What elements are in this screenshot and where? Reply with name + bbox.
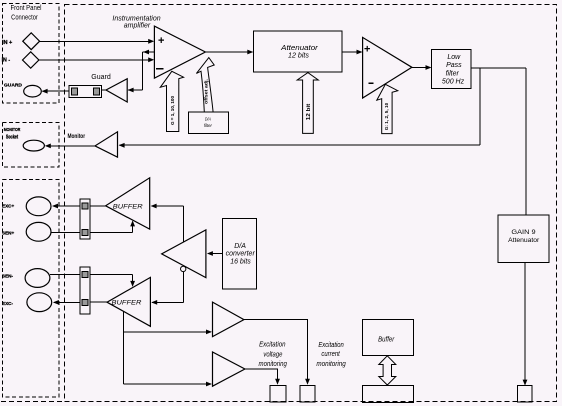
wire attenuator to U2 — [342, 51, 361, 53]
buffer B1 triangle — [106, 178, 150, 229]
svg-text:BUFFER: BUFFER — [113, 204, 143, 211]
wire tap to current monitor amp — [123, 383, 211, 385]
svg-text:Socket: Socket — [6, 134, 18, 140]
wire guard box to GUARD ellipse — [43, 90, 69, 92]
connector ellipse SEN- — [25, 269, 50, 288]
excitation connector dashed box — [3, 180, 60, 398]
wire sense feedback buffer2 — [90, 274, 133, 276]
wire central vertical lower — [183, 272, 185, 303]
bus pad box — [363, 386, 414, 403]
buffer B2 triangle — [107, 277, 150, 326]
wire SEN+ to block — [51, 231, 80, 233]
svg-text:offset adj.: offset adj. — [204, 79, 209, 104]
wire IN- to amplifier — [39, 59, 151, 61]
gain select block arrow into U1 — [160, 71, 183, 131]
svg-text:12 bit: 12 bit — [306, 103, 312, 120]
wire monitor amp A output — [244, 320, 308, 384]
wire low pass output — [472, 67, 526, 69]
svg-text:converter: converter — [226, 250, 256, 257]
wire into buffer B2 — [152, 301, 184, 303]
D/A filter box — [189, 112, 229, 133]
svg-text:Excitation: Excitation — [259, 342, 285, 349]
wire gain 9 output down — [524, 263, 526, 385]
feedthrough block lower — [80, 267, 90, 314]
svg-text:SEN+: SEN+ — [2, 230, 14, 235]
svg-text:Instrumentation: Instrumentation — [112, 15, 160, 22]
svg-text:IN +: IN + — [2, 40, 12, 46]
12 bit block arrow into attenuator — [297, 73, 318, 134]
wire guard buffer output — [102, 89, 106, 91]
wire down to gain attenuator — [525, 68, 527, 215]
svg-text:Front Panel: Front Panel — [11, 3, 42, 12]
wire guard tap from U1 — [142, 51, 154, 53]
wire monitor output — [46, 145, 95, 147]
svg-text:BUFFER: BUFFER — [112, 300, 142, 307]
wire monitor tap vertical — [479, 68, 481, 145]
svg-text:SEN-: SEN- — [2, 274, 13, 279]
op-amp U1 instrumentation amplifier — [154, 26, 205, 78]
voltage monitor pad — [270, 386, 286, 402]
monitor amp B — [213, 352, 245, 386]
svg-text:GUARD: GUARD — [4, 83, 22, 89]
wire guard to buffer — [128, 89, 142, 91]
svg-text:D/A: D/A — [234, 243, 246, 250]
connector ellipse EXC+ — [26, 197, 51, 216]
connector ellipse EXC- — [27, 293, 52, 312]
current monitor pad — [300, 386, 315, 402]
wire U2 output to low pass filter — [412, 67, 431, 69]
wire sense feedback buffer1 — [90, 231, 133, 233]
guard feedthrough box — [69, 85, 102, 97]
monitor amp A — [213, 302, 244, 337]
svg-text:filter: filter — [204, 123, 212, 128]
wire block to EXC- — [54, 301, 80, 303]
front panel connector dashed box — [3, 4, 60, 104]
monitor buffer triangle — [95, 132, 118, 157]
svg-text:filter: filter — [446, 70, 460, 77]
svg-text:Guard: Guard — [91, 74, 111, 81]
bidirectional block arrow — [379, 356, 396, 385]
svg-text:monitoring: monitoring — [316, 361, 345, 368]
connector ellipse GUARD — [24, 85, 42, 97]
wire monitoring tap vertical — [122, 311, 124, 384]
svg-text:500 Hz: 500 Hz — [442, 78, 465, 85]
svg-text:Low: Low — [447, 54, 461, 61]
guard buffer triangle — [106, 79, 127, 102]
svg-text:voltage: voltage — [263, 352, 282, 359]
wire U1 output to attenuator — [205, 51, 252, 53]
wire monitor amp B output — [245, 369, 278, 384]
wire D/A converter to excitation amp — [208, 253, 223, 255]
low pass filter box — [432, 49, 472, 88]
svg-text:GAIN 9: GAIN 9 — [511, 229, 535, 236]
svg-text:12 bits: 12 bits — [288, 51, 309, 60]
op-amp U2 — [363, 37, 412, 98]
wire monitor horizontal — [120, 144, 481, 146]
connector diamond IN- — [23, 52, 39, 68]
connector diamond IN+ — [23, 33, 40, 50]
feedthrough block upper — [80, 199, 90, 239]
svg-text:Buffer: Buffer — [378, 336, 395, 343]
connector ellipse monitor — [23, 140, 44, 151]
wire guard vertical — [141, 52, 143, 90]
svg-text:Connector: Connector — [11, 12, 38, 21]
svg-text:16 bits: 16 bits — [230, 259, 251, 266]
svg-text:G = 1, 10, 100: G = 1, 10, 100 — [170, 95, 175, 125]
wire SEN- to block — [50, 274, 80, 276]
svg-text:Excitation: Excitation — [318, 342, 343, 349]
wire tap to voltage monitor amp — [123, 331, 211, 333]
wire central vertical upper — [183, 206, 185, 242]
excitation amp triangle — [162, 230, 206, 278]
gain 9 attenuator box — [498, 215, 549, 263]
svg-text:Attenuator: Attenuator — [508, 237, 540, 244]
wire buffer1 output to EXC+ — [53, 205, 80, 207]
svg-text:G: 1, 2, 5, 10: G: 1, 2, 5, 10 — [384, 102, 389, 130]
offset adjust curved arrow from D/A filter — [196, 58, 214, 112]
wire block to buffer1 vertex — [90, 205, 106, 207]
monitor socket dashed box — [3, 123, 60, 168]
svg-text:MONITOR: MONITOR — [4, 127, 21, 133]
svg-text:current: current — [321, 351, 340, 358]
wire buffer B2 output to block — [90, 301, 107, 303]
connector ellipse SEN+ — [26, 222, 51, 241]
gain select block arrow into U2 — [377, 84, 398, 133]
svg-text:D/A: D/A — [205, 116, 211, 121]
attenuator 12 bits box — [254, 31, 343, 72]
svg-text:Pass: Pass — [446, 62, 462, 69]
svg-text:EXC-: EXC- — [2, 301, 13, 306]
svg-text:EXC+: EXC+ — [2, 204, 14, 209]
wire IN+ to amplifier — [40, 40, 152, 42]
svg-text:+: + — [364, 43, 370, 55]
D/A converter 16 bits box — [223, 219, 257, 289]
output pad bottom right — [518, 386, 532, 402]
svg-text:amplifier: amplifier — [124, 23, 151, 30]
svg-text:+: + — [158, 35, 164, 47]
inverter bubble — [181, 266, 186, 271]
svg-text:IN -: IN - — [2, 58, 11, 64]
buffer box — [363, 320, 414, 356]
wire into buffer B1 — [152, 205, 184, 207]
svg-text:monitoring: monitoring — [259, 361, 287, 368]
svg-text:Monitor: Monitor — [67, 133, 85, 140]
